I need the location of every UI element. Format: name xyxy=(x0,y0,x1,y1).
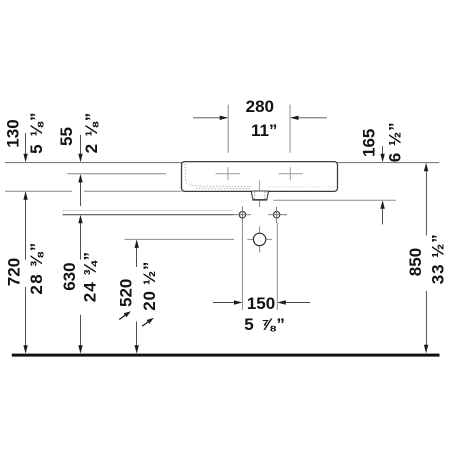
label 850 xyxy=(406,248,425,276)
basin interior dashed contour xyxy=(185,164,336,189)
dimension 280 extension lines xyxy=(228,105,290,153)
dimension 850 line xyxy=(424,163,428,353)
fixing hole left xyxy=(234,207,251,224)
fixing hole centerline xyxy=(63,214,287,216)
svg-text:150: 150 xyxy=(247,294,275,313)
dimension 165 upper arrow xyxy=(380,146,384,162)
drain centerline inside basin xyxy=(258,181,260,191)
label 33 1/2 inch xyxy=(429,233,448,284)
dimension 280 arrow left xyxy=(193,116,228,120)
faucet level reference line xyxy=(67,173,166,175)
dimension 520 line xyxy=(135,239,139,353)
svg-text:130: 130 xyxy=(4,119,23,147)
svg-text:11”: 11” xyxy=(251,121,277,140)
label 150 xyxy=(247,294,275,313)
svg-text:520: 520 xyxy=(117,279,136,307)
dimension 130 upper arrow xyxy=(23,133,27,162)
svg-text:5 ⅛”: 5 ⅛” xyxy=(27,111,46,154)
label 6 1/2 inch xyxy=(386,121,405,162)
svg-text:5 ⅞”: 5 ⅞” xyxy=(244,315,286,334)
svg-text:24 ¾”: 24 ¾” xyxy=(81,251,100,302)
basin underside reference line xyxy=(5,190,182,192)
label 130 xyxy=(4,119,23,147)
faucet hole mark left xyxy=(216,167,241,180)
label 520 xyxy=(117,279,136,307)
svg-text:33 ½”: 33 ½” xyxy=(429,233,448,284)
drain centerline vertical xyxy=(259,201,261,253)
rim top reference line xyxy=(5,162,439,164)
label 11 inch xyxy=(251,121,277,140)
faucet hole mark right xyxy=(279,167,303,180)
drain hole circle xyxy=(253,233,265,245)
dimension 55 upper arrow xyxy=(78,135,82,163)
drain fitting block xyxy=(251,191,268,200)
label 2 1/8 inch xyxy=(82,111,101,153)
svg-text:720: 720 xyxy=(5,258,24,286)
label 630 xyxy=(60,262,79,290)
fitting bottom reference line xyxy=(274,199,397,201)
dimension 150 extension lines xyxy=(242,223,277,310)
dimension 720 line xyxy=(23,191,27,353)
label 280 xyxy=(246,97,274,116)
dimension 165 lower arrow xyxy=(380,200,384,224)
fitting hidden dashed lines xyxy=(255,192,265,200)
svg-text:850: 850 xyxy=(406,248,425,276)
leader arrow for 520 xyxy=(119,311,131,319)
floor line xyxy=(12,354,440,357)
light reference line xyxy=(63,209,234,211)
svg-text:6 ½”: 6 ½” xyxy=(386,121,405,162)
dimension 280 arrow right xyxy=(290,116,327,120)
drain centerline horizontal xyxy=(125,238,272,240)
label 720 xyxy=(5,258,24,286)
label 24 3/4 inch xyxy=(81,251,100,302)
label 55 xyxy=(57,127,76,146)
svg-text:20 ½”: 20 ½” xyxy=(140,261,159,311)
svg-text:165: 165 xyxy=(360,129,379,157)
label 5 1/8 inch xyxy=(27,111,46,154)
svg-text:280: 280 xyxy=(246,97,274,116)
svg-text:55: 55 xyxy=(57,127,76,146)
dimension 630 line xyxy=(78,215,82,354)
fixing hole right xyxy=(268,207,285,224)
washbasin outline xyxy=(182,162,338,192)
leader arrow for 20 1/2 inch xyxy=(142,318,154,326)
svg-text:28 ⅜”: 28 ⅜” xyxy=(27,241,46,294)
dimension 150 arrow left xyxy=(213,300,243,304)
dimension 150 arrow right xyxy=(277,300,310,304)
label 20 1/2 inch xyxy=(140,261,159,311)
label 5 7/8 inch xyxy=(244,315,286,334)
svg-text:2 ⅛”: 2 ⅛” xyxy=(82,111,101,153)
label 28 3/8 inch xyxy=(27,241,46,294)
svg-text:630: 630 xyxy=(60,262,79,290)
label 165 xyxy=(360,129,379,157)
dimension 55 lower arrow xyxy=(78,174,82,206)
